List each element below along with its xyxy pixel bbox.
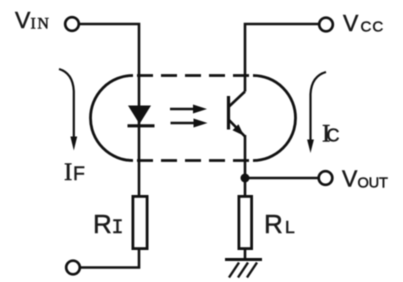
svg-text:I: I (64, 159, 72, 186)
svg-text:V: V (342, 166, 358, 192)
svg-text:F: F (73, 163, 85, 185)
svg-text:R: R (93, 209, 112, 239)
svg-text:V: V (343, 10, 359, 36)
svg-text:C: C (327, 126, 340, 146)
svg-text:R: R (264, 209, 283, 239)
svg-text:V: V (15, 7, 31, 33)
svg-text:I: I (112, 217, 124, 240)
svg-text:OUT: OUT (358, 176, 388, 192)
svg-text:L: L (285, 217, 295, 237)
svg-text:CC: CC (361, 19, 385, 36)
svg-text:IN: IN (31, 16, 51, 33)
